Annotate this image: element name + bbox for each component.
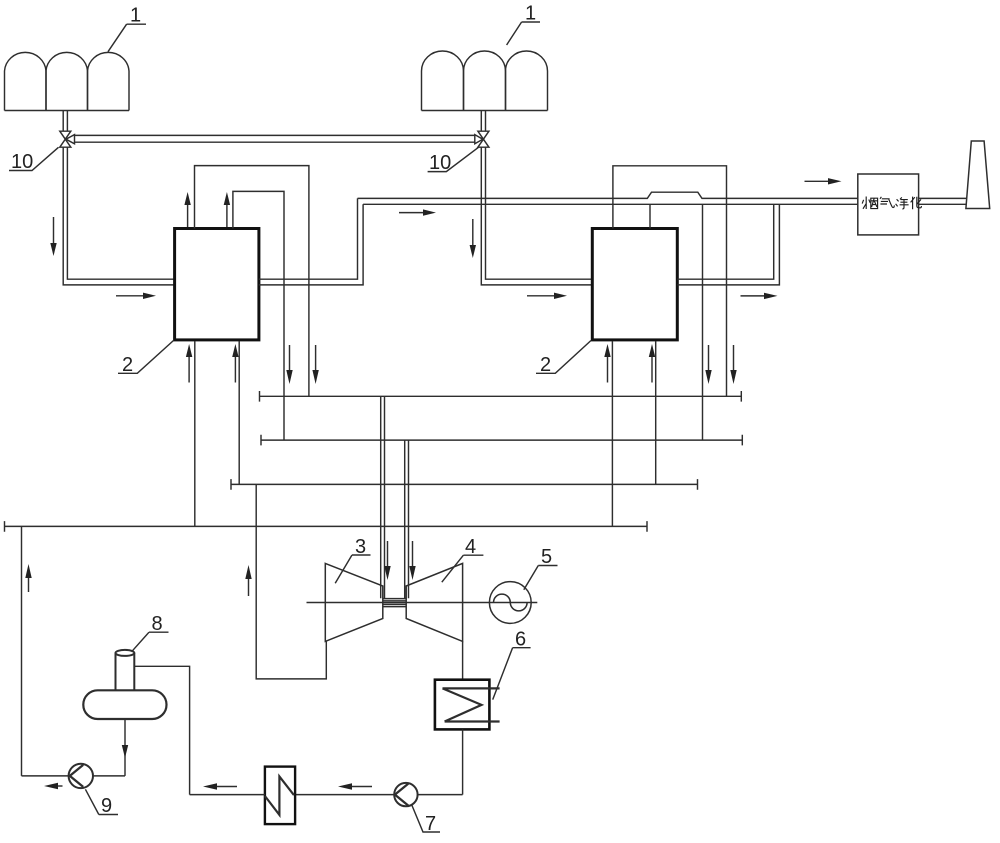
- pipe: below boiler2 down to header3 (x655.7): [655, 341, 657, 484]
- pipe: bunker2 down to valve 10 right: [481, 111, 485, 132]
- header line 3 with end ticks: [231, 479, 698, 490]
- boiler2 flue outlet pipe and riser joining main flue line (double line): [677, 204, 779, 285]
- arrow down on drain pipe: [122, 745, 128, 758]
- generator 5 (circle with sine): [489, 582, 531, 624]
- pipe: LP turbine down to heater 6: [462, 641, 464, 679]
- arrow up beside x194.8 pipe: [186, 344, 192, 383]
- svg-text:8: 8: [152, 613, 163, 635]
- label 8 with leader: [132, 613, 169, 652]
- boiler 2 (right): [592, 229, 677, 340]
- header line 4 with end ticks: [5, 521, 648, 532]
- pipe: valve2 drop and elbow into boiler2 (double line): [481, 147, 592, 285]
- arrow left above condensate line (right segment): [338, 783, 372, 789]
- pipe: flue line drop into boiler2 top: [649, 204, 651, 228]
- deaerator 8 (drum with dome): [83, 650, 166, 719]
- text 烟气净化 (drawn strokes): [862, 197, 921, 210]
- steam pipe B: header2 down to turbine inlet (double line): [405, 440, 409, 598]
- label 10 (right) with leader: [428, 147, 479, 174]
- arrow up beside boiler1 top pipe (inner): [224, 192, 230, 227]
- heater 6 (box with coil): [435, 680, 500, 730]
- chimney: [966, 141, 990, 209]
- pump9 suction line from drain: [93, 775, 125, 777]
- label 2 (left) with leader: [118, 341, 174, 377]
- pipe: valve1 to valve2 (double horizontal): [75, 135, 475, 142]
- condensate line: deaerator corner to heat exchanger: [190, 794, 265, 796]
- boiler1 flue outlet pipe and riser elbow (double line): [259, 198, 363, 285]
- arrow right below flue line after riser: [399, 209, 436, 215]
- svg-text:6: 6: [515, 629, 526, 651]
- pipe: bunker1 down to valve 10 left (double line): [63, 111, 67, 132]
- pipe: valve1 drop and elbow into boiler1 (double line): [63, 147, 174, 285]
- arrow up beside x612.4 pipe: [604, 344, 610, 383]
- main flue line to purification box (double line, upper line bridges 650-702): [358, 192, 858, 198]
- label 5 with leader: [524, 546, 558, 590]
- coal bunker group 1 (left): [5, 52, 130, 110]
- deaerator drain pipe down to pump9: [124, 719, 126, 776]
- arrow left above condensate line (left segment): [203, 783, 237, 789]
- svg-text:4: 4: [465, 536, 476, 558]
- arrow down beside valve2 drop pipe: [470, 219, 476, 258]
- pump 7 (circle with chevron): [394, 783, 417, 806]
- label 2 (right) with leader: [536, 341, 591, 377]
- svg-text:1: 1: [525, 3, 536, 25]
- arrow up beside exhaust pipe: [245, 565, 251, 596]
- svg-text:1: 1: [130, 5, 141, 27]
- pump 9 (circle with chevron): [69, 764, 93, 788]
- arrow down beside steam pipe B: [409, 541, 415, 580]
- condensate line: heat exchanger to pump7: [295, 794, 394, 796]
- exhaust pipe: header3 down, right, up into turbine HP bottom: [256, 484, 326, 679]
- pipe: from flue line down to header2 (x702.5): [702, 204, 704, 440]
- label 9 with leader: [85, 789, 118, 817]
- heat exchanger (box with N zigzag): [265, 767, 295, 825]
- arrow down beside loop leg x309: [312, 345, 318, 384]
- flue gas purification box: [858, 174, 919, 235]
- svg-text:5: 5: [541, 546, 552, 568]
- svg-text:3: 3: [355, 536, 366, 558]
- steam pipe A: header1 down to turbine inlet (double line): [381, 396, 385, 598]
- arrow right below boiler2 outlet pipe: [741, 293, 778, 299]
- pipe: below boiler1 down to header3 (x239.2): [238, 341, 240, 484]
- feedwater pipe: header4 left end down to pump9 discharge line: [21, 526, 23, 776]
- valve 10 (right, three-way): [475, 131, 489, 147]
- svg-text:7: 7: [425, 813, 436, 835]
- pipe: heater 6 down to condensate line: [462, 729, 464, 794]
- arrow up beside x239.2 pipe: [232, 344, 238, 383]
- turbine middle coupling lines: [383, 599, 406, 607]
- header line 1 with end ticks: [260, 391, 742, 402]
- arrow right on flue line before purification box: [805, 178, 842, 184]
- arrow down beside valve1 drop pipe: [50, 217, 56, 256]
- flue pipe: purification box to chimney (double line): [919, 198, 967, 204]
- pipe: below boiler2 down to header4 (x612.4): [611, 341, 613, 526]
- arrow up beside boiler1 top pipe (outer): [184, 192, 190, 227]
- label 6 with leader: [493, 629, 531, 700]
- arrow down beside steam pipe A: [384, 541, 390, 580]
- pipe loop above boiler2: riser from boiler top, top run, drop leg to header1: [613, 166, 727, 396]
- pipe loop above boiler1 (inner): riser, top run, drop leg to header2: [233, 191, 284, 440]
- valve 10 (left, three-way): [60, 131, 75, 147]
- arrow down beside x702.5 pipe: [705, 345, 711, 384]
- arrow up beside x655.7 pipe: [649, 344, 655, 383]
- turbine LP section 4 (trapezoid): [406, 563, 462, 641]
- coal bunker group 1 (right): [422, 51, 548, 111]
- header line 2 with end ticks: [261, 435, 742, 446]
- label 3 with leader: [335, 536, 370, 583]
- svg-text:2: 2: [122, 354, 133, 376]
- pipe: below boiler1 down to header4 (x194.8): [194, 341, 196, 526]
- arrow down beside x726.5 loop leg: [730, 345, 736, 384]
- label 10 (left) with leader: [9, 147, 59, 173]
- condensate line: pump7 to heater6 riser: [418, 794, 463, 796]
- svg-text:10: 10: [11, 151, 33, 173]
- svg-text:10: 10: [429, 152, 451, 174]
- label 7 with leader: [412, 806, 440, 836]
- boiler 2 (left): [175, 229, 259, 340]
- condensate riser to deaerator inlet: [134, 666, 189, 794]
- svg-text:2: 2: [540, 354, 551, 376]
- arrow right below boiler1 inlet pipe: [116, 293, 156, 299]
- arrow left below pump9 discharge line: [44, 783, 63, 789]
- turbine shaft: [307, 602, 538, 604]
- pipe loop above boiler1 (outer): riser, top run, drop leg to header1: [195, 166, 309, 397]
- label 1 (left) with leader: [108, 5, 146, 52]
- arrow down beside loop leg x284: [286, 345, 292, 384]
- label 4 with leader: [442, 536, 484, 582]
- arrow up beside feedwater pipe: [25, 564, 31, 592]
- pump9 discharge line to feedwater riser: [22, 775, 69, 777]
- turbine HP section 3 (trapezoid): [325, 563, 383, 641]
- label 1 (right) with leader: [507, 3, 540, 46]
- svg-text:9: 9: [101, 795, 112, 817]
- arrow right below boiler2 inlet pipe: [527, 293, 567, 299]
